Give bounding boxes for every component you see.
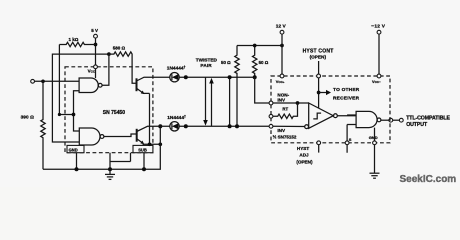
- resistor 390 Ohm: [21, 81, 46, 169]
- ground (receiver): [370, 173, 380, 178]
- node input junction: [41, 79, 45, 83]
- svg-text:TTL-COMPATIBLE: TTL-COMPATIBLE: [406, 115, 450, 121]
- transistor Q2 (lower): [137, 126, 153, 144]
- node hyst tap: [317, 91, 321, 95]
- svg-text:RECEIVER: RECEIVER: [333, 95, 360, 101]
- svg-text:TO OTHER: TO OTHER: [333, 87, 360, 93]
- svg-text:SN 75450: SN 75450: [103, 110, 125, 116]
- svg-text:−12 V: −12 V: [371, 24, 385, 30]
- wire to other receiver arrow: [319, 87, 360, 101]
- pin RT and resistor RT: [269, 103, 297, 119]
- NAND gate U3: [356, 111, 381, 127]
- svg-text:TWISTED: TWISTED: [196, 57, 218, 62]
- pin HYST CONT: [303, 49, 334, 109]
- node riser on line B: [158, 124, 162, 128]
- svg-text:1N4444†: 1N4444†: [167, 115, 186, 121]
- input terminal: [31, 79, 35, 83]
- svg-text:ADJ: ADJ: [299, 152, 309, 157]
- terminal TTL output: [399, 115, 450, 128]
- ground (driver): [105, 169, 115, 179]
- wire D2 to line: [179, 125, 271, 127]
- wire top line to diode D1: [153, 76, 170, 78]
- pin VCC+: [276, 74, 285, 84]
- svg-text:INV: INV: [277, 128, 286, 133]
- -12 V supply terminal: [371, 24, 385, 76]
- node link top: [228, 75, 232, 79]
- pin S strobe: [345, 137, 352, 145]
- pin GND receiver: [369, 128, 378, 174]
- wire SUB pin drop: [143, 153, 145, 170]
- wire G2 output to Q2 base: [104, 134, 137, 137]
- node non-inv RT junction: [296, 101, 300, 105]
- pin INV: [269, 124, 305, 132]
- node 580-gate-output junction: [107, 52, 111, 56]
- pin SUB label box of driver: [133, 145, 153, 152]
- node 12V junction: [280, 44, 284, 48]
- svg-text:390 Ω: 390 Ω: [21, 115, 35, 120]
- wire G1 output up to 580 node: [102, 54, 109, 85]
- node line A tap: [184, 75, 188, 79]
- wire ground riser: [43, 126, 160, 169]
- svg-text:VCC−: VCC−: [372, 79, 381, 84]
- transistor Q1 (upper): [137, 77, 153, 94]
- node emitter bus: [148, 142, 152, 146]
- svg-text:OUTPUT: OUTPUT: [406, 122, 428, 128]
- svg-text:GND: GND: [69, 147, 78, 152]
- wire strobe riser: [346, 125, 348, 153]
- svg-text:(OPEN): (OPEN): [296, 160, 313, 165]
- resistor 50 Ohm (left): [221, 46, 239, 127]
- wire NAND out to pin: [381, 119, 389, 121]
- NAND gate G1 (upper): [79, 78, 102, 93]
- node ground riser: [158, 142, 162, 146]
- diode D1 1N4444: [167, 65, 186, 82]
- node ground symbol junction: [108, 167, 112, 171]
- svg-text:GND: GND: [369, 135, 378, 140]
- pin HYST ADJ: [296, 141, 320, 165]
- svg-text:50 Ω: 50 Ω: [221, 60, 231, 65]
- node 5V junction: [94, 43, 98, 47]
- svg-text:50 Ω: 50 Ω: [259, 60, 269, 65]
- wire GND pin drop: [76, 153, 78, 170]
- driver IC box SN75450: [65, 67, 153, 153]
- svg-text:1N4444†: 1N4444†: [167, 65, 186, 71]
- wire Q1 emitter down inside box: [149, 93, 151, 144]
- node SUB pin on bus: [142, 167, 146, 171]
- pin NON-INV: [269, 92, 309, 105]
- wire 580 net from corner x52.4: [52, 54, 109, 142]
- pin VCC-: [372, 74, 381, 84]
- svg-text:5 V: 5 V: [91, 28, 98, 33]
- node 50R top: [253, 44, 257, 48]
- svg-text:580 Ω: 580 Ω: [113, 46, 126, 51]
- pin VCC of driver: [88, 65, 98, 78]
- op-amp U2 comparator: [305, 103, 338, 129]
- wire D1 to line: [179, 76, 255, 78]
- resistor 1 kOhm: [59, 37, 95, 47]
- svg-text:½ SN75152: ½ SN75152: [273, 133, 297, 139]
- resistor 580 Ohm: [109, 46, 137, 84]
- svg-text:SeekIC.com: SeekIC.com: [400, 174, 457, 185]
- wire line link: [229, 77, 231, 126]
- pin OUT on box edge: [389, 118, 393, 122]
- NAND gate G2 (lower): [79, 128, 104, 145]
- wire G1 input2 feedback to G2 input1: [74, 91, 80, 131]
- wire 50 Ohm tops to 12V: [237, 45, 282, 47]
- wire input to gate A1: [35, 80, 80, 82]
- node link bottom: [228, 124, 232, 128]
- 5 V supply terminal: [91, 28, 98, 67]
- 12 V supply terminal: [276, 24, 287, 76]
- svg-text:1 kΩ: 1 kΩ: [69, 37, 79, 42]
- svg-text:RT: RT: [282, 107, 288, 112]
- pin GND label box of driver: [67, 145, 84, 152]
- svg-text:PAIR: PAIR: [200, 63, 212, 68]
- node GND pin on bus: [75, 167, 79, 171]
- svg-text:HYST: HYST: [297, 146, 309, 151]
- wire op-amp out to NAND: [337, 115, 356, 125]
- wire pin to terminal: [393, 119, 400, 121]
- node 50L bottom: [235, 124, 239, 128]
- receiver IC box SN75152: [271, 76, 390, 143]
- node 50R bottom: [253, 75, 257, 79]
- twisted pair marker: [196, 57, 218, 126]
- svg-text:INV: INV: [277, 97, 286, 102]
- diode D2 1N4444: [167, 115, 186, 131]
- svg-text:VCC: VCC: [88, 69, 96, 74]
- svg-text:SUB: SUB: [138, 147, 147, 152]
- wire 50R to NON-INV pin: [255, 77, 271, 103]
- node line B tap: [184, 124, 188, 128]
- svg-text:(OPEN): (OPEN): [310, 54, 327, 59]
- svg-text:VCC+: VCC+: [276, 79, 285, 84]
- node feedback-left: [58, 113, 61, 116]
- resistor 50 Ohm (right): [253, 46, 269, 78]
- wire bottom line to diode D2: [153, 125, 170, 127]
- wire Q2 emitter to SUB and out: [143, 143, 160, 145]
- svg-text:S: S: [349, 137, 352, 142]
- node feedback junction: [72, 113, 76, 117]
- svg-text:12 V: 12 V: [276, 24, 287, 30]
- wire emitter pins U-link: [110, 153, 131, 170]
- wire 1k left leg down to feedback node: [59, 45, 73, 115]
